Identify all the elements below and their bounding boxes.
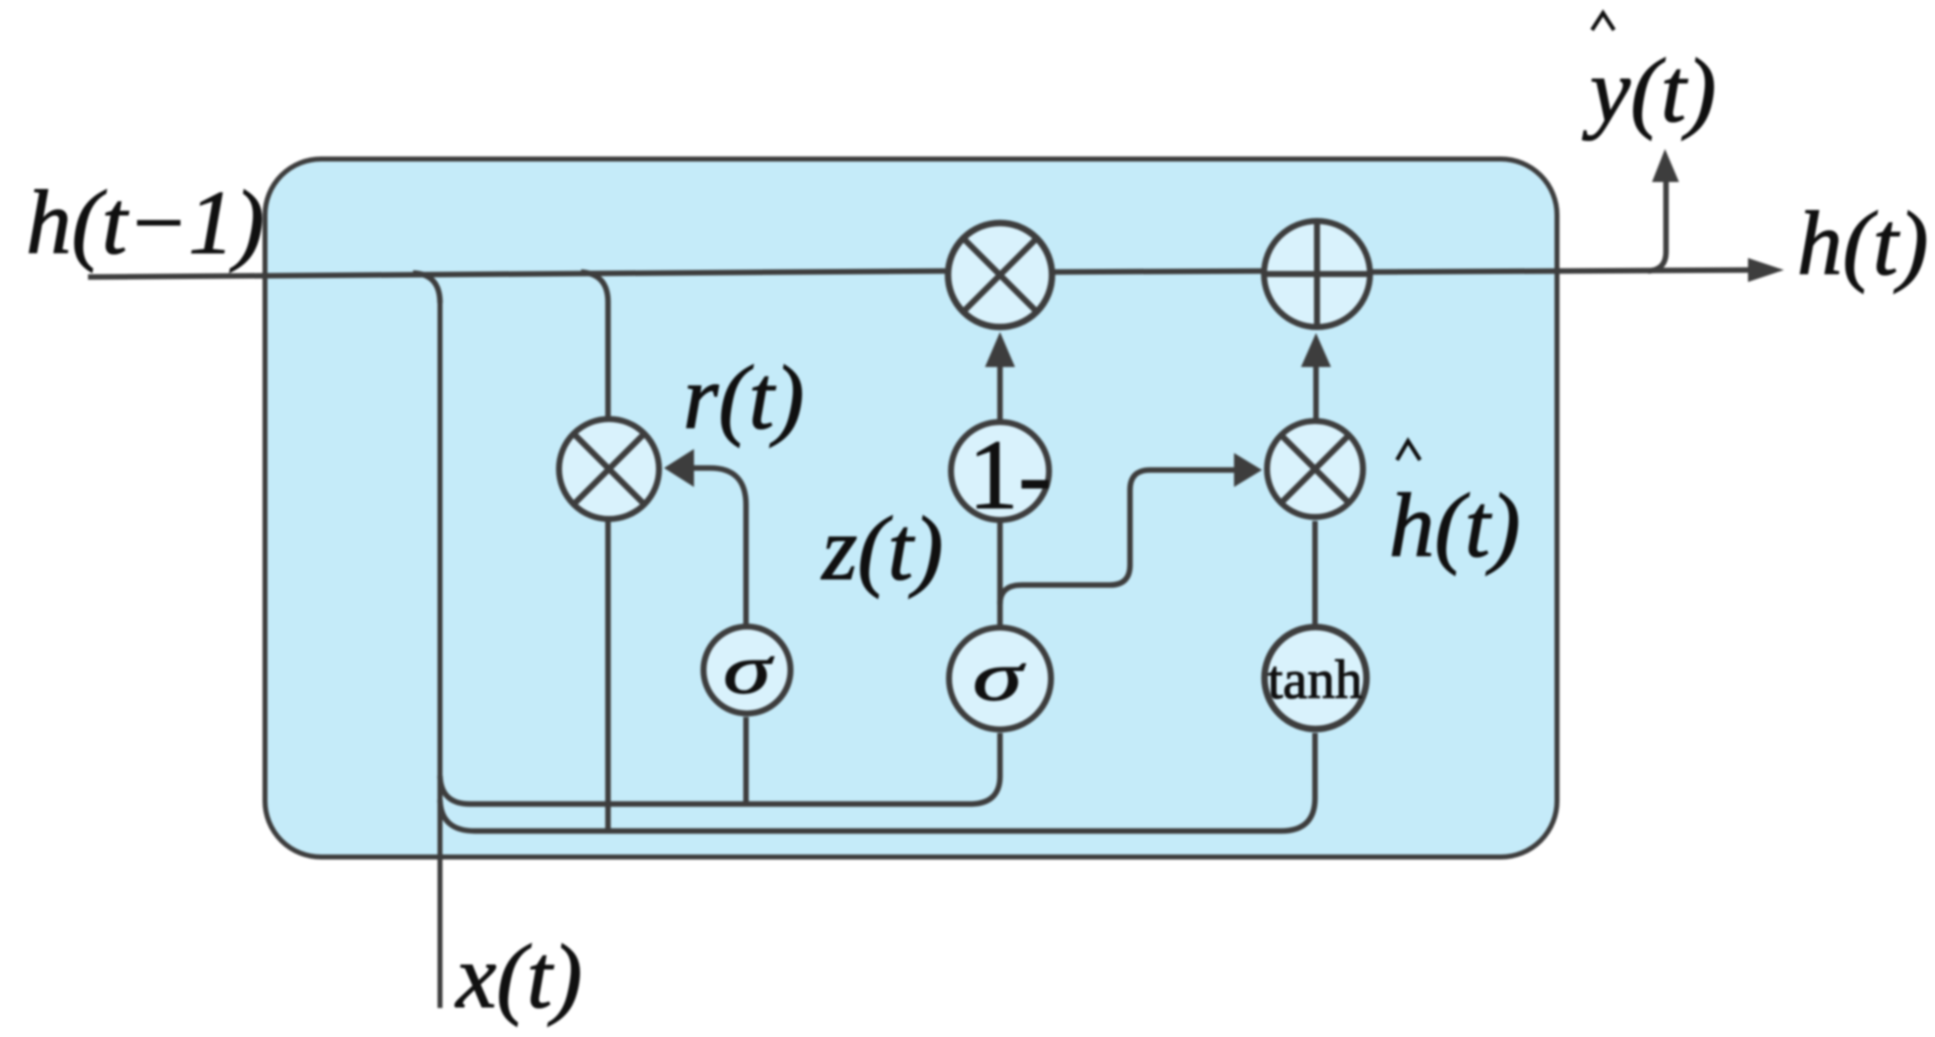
svg-text:y(t): y(t) [1582,40,1716,141]
wire lower bus to tanh [440,733,1315,831]
svg-text:h(t): h(t) [1797,193,1928,294]
wire tanh to hhat multiply [1312,521,1318,629]
multiply circle top (1-z)*h [948,223,1052,327]
wire corner from h-line down to reset multiply [581,272,608,419]
arrowhead into reset multiply [664,449,694,487]
arrowhead into add circle [1301,333,1331,367]
arrowhead into hhat multiply [1234,453,1262,487]
wire h(t-1) input left segment [88,271,945,277]
wire reset multiply output down to lower bus [605,520,611,833]
wire 1- up to top multiply with arrow [997,360,1003,421]
1- circle [951,422,1049,520]
svg-text:h(t): h(t) [1389,475,1520,576]
caret over h-hat [1397,441,1420,460]
svg-text:1-: 1- [968,419,1051,530]
wire h(t) output right segment [1371,270,1752,272]
svg-text:h(t−1): h(t−1) [26,172,264,273]
svg-text:tanh: tanh [1268,649,1363,710]
multiply circle reset gate [559,419,659,519]
svg-text:z(t): z(t) [820,498,943,599]
svg-text:x(t): x(t) [454,926,582,1027]
GRU cell body box [265,159,1557,857]
svg-text:σ: σ [973,638,1026,716]
add circle [1264,221,1370,327]
wire main vertical x(t)/h(t-1) trunk [438,298,443,1008]
arrowhead h(t) output [1748,258,1784,282]
multiply circle hhat [1267,421,1363,517]
wire y-hat branch up from h line [1648,182,1666,271]
sigma circle reset [704,627,791,714]
caret over y-hat [1592,13,1614,30]
wire sigma-z to 1- circle [997,522,1003,629]
wire r(t) feedback from sigma-r to reset multiply [694,468,746,629]
svg-text:σ: σ [723,632,775,709]
tanh circle [1265,627,1367,729]
svg-text:r(t): r(t) [683,347,804,448]
sigma circle update [949,628,1051,730]
wire hhat multiply up to add with arrow [1313,360,1319,421]
wire between multiply and add circles [1055,271,1264,272]
wire sigma-r input stub [743,717,749,806]
arrowhead into top multiply [985,332,1015,367]
wire z(t) branch to hhat multiply [1000,470,1236,604]
arrowhead y-hat [1652,149,1679,182]
wire corner from h-line into vertical x=440 [413,273,440,303]
wire upper bus to sigma gates ending at sigma-z [440,733,1000,804]
